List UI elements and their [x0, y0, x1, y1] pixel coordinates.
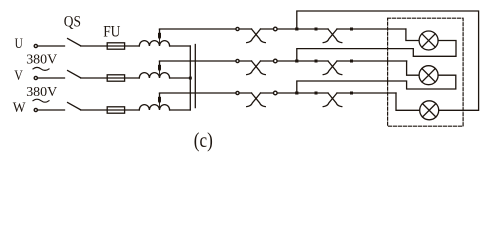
terminal W mid circle — [274, 91, 278, 95]
svg-text:(c): (c) — [194, 128, 213, 152]
svg-text:V: V — [14, 68, 23, 84]
terminal U mid circle — [274, 27, 278, 31]
terminal W tap — [236, 91, 239, 94]
label V — [14, 68, 23, 84]
wire V coil-to-star — [170, 77, 191, 79]
junction dot lamp1-return to V — [295, 60, 298, 63]
lamp HL1 — [419, 31, 438, 50]
CT symbol U second — [323, 29, 342, 43]
autotransformer coil W — [139, 105, 169, 110]
fuse FU U — [107, 43, 124, 49]
AC tilde upper — [33, 67, 49, 70]
junction dot W node — [295, 92, 298, 95]
wire V tap line — [160, 60, 407, 62]
terminal U tap — [236, 27, 239, 30]
autotransformer coil U — [139, 41, 169, 46]
dashed lamp enclosure — [388, 18, 464, 126]
label 380V upper — [26, 53, 57, 68]
terminal V mid circle — [274, 59, 278, 63]
wire lamp1 return loop — [297, 41, 456, 62]
tap wiper arrow V — [158, 61, 161, 74]
wire W coil-to-star — [170, 109, 191, 111]
terminal V — [34, 76, 37, 79]
CT symbol V second — [323, 61, 342, 75]
wire lamp2 feed drop — [407, 61, 420, 75]
junction dot W pre-CT2 — [315, 92, 318, 95]
wire W input — [38, 109, 65, 111]
wire lamp3 feed drop — [396, 93, 420, 110]
CT symbol V first — [247, 61, 266, 75]
switch QS pole U — [68, 39, 81, 46]
junction dot U node — [295, 28, 298, 31]
CT symbol U first — [247, 29, 266, 43]
wire V input — [38, 77, 65, 79]
label FU — [103, 22, 120, 41]
caption (c) — [194, 128, 213, 152]
terminal V tap — [236, 59, 239, 62]
wire U tap line — [160, 28, 406, 30]
wire U switch-to-fuse — [81, 45, 140, 47]
tap wiper arrow U — [158, 29, 161, 42]
switch QS pole W — [68, 103, 81, 110]
svg-text:380V: 380V — [26, 53, 57, 68]
junction dot V post-CT2 — [350, 60, 353, 63]
svg-text:380V: 380V — [26, 85, 57, 100]
CT symbol W first — [247, 93, 266, 107]
svg-text:FU: FU — [103, 22, 120, 41]
junction dot U pre-CT2 — [315, 28, 318, 31]
core bar — [194, 45, 196, 108]
wire U coil-to-star — [170, 45, 191, 47]
wire V switch-to-fuse — [81, 77, 140, 79]
junction dot star V — [189, 77, 192, 80]
wire lamp1 feed drop — [406, 29, 419, 41]
wire lamp2 return loop — [297, 75, 456, 93]
terminal W — [34, 108, 37, 111]
label 380V lower — [26, 85, 57, 100]
terminal U — [34, 44, 37, 47]
junction dot lamp3-return to U — [295, 28, 298, 31]
wire W tap line — [160, 92, 397, 94]
svg-text:W: W — [13, 100, 27, 116]
wire lamp3 return via top — [297, 11, 479, 110]
AC tilde lower — [33, 99, 49, 102]
autotransformer coil V — [139, 73, 169, 78]
junction dot V node — [295, 60, 298, 63]
lamp HL2 — [419, 66, 438, 85]
tap wiper arrow W — [158, 93, 161, 106]
label QS — [64, 13, 81, 30]
star-point bus — [189, 46, 191, 110]
junction dot V pre-CT2 — [315, 60, 318, 63]
fuse FU V — [107, 75, 124, 81]
junction dot U post-CT2 — [350, 28, 353, 31]
label W — [13, 100, 27, 116]
junction dot W post-CT2 — [350, 92, 353, 95]
svg-text:U: U — [15, 36, 23, 52]
fuse FU W — [107, 107, 124, 113]
junction dot lamp2-return to W — [295, 92, 298, 95]
svg-text:QS: QS — [64, 13, 81, 30]
wire U input — [38, 45, 65, 47]
lamp HL3 — [420, 101, 439, 120]
switch QS pole V — [68, 71, 81, 78]
wire W switch-to-fuse — [81, 109, 140, 111]
label U — [15, 36, 23, 52]
CT symbol W second — [323, 93, 342, 107]
